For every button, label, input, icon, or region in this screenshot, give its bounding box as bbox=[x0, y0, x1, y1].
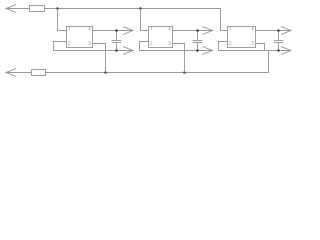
node junction D bbox=[183, 71, 186, 74]
pin 4 U1 bbox=[89, 27, 91, 30]
arrow stage2 lower output bbox=[203, 47, 213, 55]
wire stage2 pin1 input bbox=[141, 9, 149, 31]
resistor R1 bbox=[30, 6, 45, 12]
wire bottom rail bbox=[46, 51, 269, 73]
wire stage3 pin4 output bbox=[256, 30, 292, 32]
wire stage2 pin4 output bbox=[173, 30, 213, 32]
node C2 top bbox=[196, 29, 199, 32]
arrow top-left port bbox=[6, 5, 16, 13]
capacitor C2 plate1 bbox=[193, 40, 203, 42]
wire stage3 under-wire bbox=[219, 50, 292, 52]
capacitor C2 bottom lead bbox=[197, 43, 199, 51]
box U3 bbox=[228, 27, 256, 48]
capacitor C2 plate2 bbox=[193, 42, 203, 44]
node C1 bottom bbox=[115, 49, 118, 52]
capacitor C3 plate1 bbox=[274, 40, 284, 42]
wire top rail bbox=[45, 9, 228, 31]
arrow stage1 lower output bbox=[123, 47, 133, 55]
wire stage2 pin2 bracket bbox=[140, 42, 149, 51]
wire stage3 pin2 bracket bbox=[219, 42, 228, 51]
wire stage1 pin1 input bbox=[58, 9, 67, 31]
node junction C bbox=[104, 71, 107, 74]
capacitor C3 top lead bbox=[278, 31, 280, 41]
wire stage1 under-wire bbox=[54, 50, 134, 52]
wire top rail left segment bbox=[6, 8, 30, 10]
pin 3 U3 bbox=[252, 42, 254, 45]
arrow stage1 upper output bbox=[123, 27, 133, 35]
pin 2 U1 bbox=[68, 42, 70, 45]
wire stage2 under-wire bbox=[140, 50, 213, 52]
pin 1 U2 bbox=[150, 27, 153, 30]
box U2 bbox=[149, 27, 173, 48]
wire stage1 pin3 drop bbox=[93, 44, 106, 73]
pin 4 U2 bbox=[169, 27, 171, 30]
pin 2 U3 bbox=[229, 42, 231, 45]
capacitor C1 plate2 bbox=[112, 42, 122, 44]
capacitor C2 top lead bbox=[197, 31, 199, 41]
node C3 top bbox=[277, 29, 280, 32]
capacitor C1 plate1 bbox=[112, 40, 122, 42]
capacitor C3 bottom lead bbox=[278, 43, 280, 51]
wire stage3 pin3 zigzag bbox=[256, 44, 265, 51]
wire stage1 pin2 bracket bbox=[54, 42, 67, 51]
arrow stage3 upper output bbox=[281, 27, 291, 35]
capacitor C1 bottom lead bbox=[116, 43, 118, 51]
pin 1 U3 bbox=[229, 27, 232, 30]
wire stage2 pin3 drop bbox=[173, 44, 185, 73]
pin 1 U1 bbox=[68, 27, 71, 30]
box U1 bbox=[67, 27, 93, 48]
pin 2 U2 bbox=[150, 42, 152, 45]
node C3 bottom bbox=[277, 49, 280, 52]
node C1 top bbox=[115, 29, 118, 32]
pin 4 U3 bbox=[252, 27, 254, 30]
wire bottom rail left segment bbox=[6, 72, 32, 74]
node C2 bottom bbox=[196, 49, 199, 52]
node junction A bbox=[56, 7, 59, 10]
wire stage1 pin4 output bbox=[93, 30, 134, 32]
arrow bottom-left port bbox=[6, 69, 16, 77]
pin 3 U1 bbox=[89, 42, 91, 45]
arrow stage3 lower output bbox=[281, 47, 291, 55]
capacitor C1 top lead bbox=[116, 31, 118, 41]
resistor R2 bbox=[32, 70, 46, 76]
pin 3 U2 bbox=[169, 42, 171, 45]
arrow stage2 upper output bbox=[203, 27, 213, 35]
node junction B bbox=[139, 7, 142, 10]
capacitor C3 plate2 bbox=[274, 42, 284, 44]
